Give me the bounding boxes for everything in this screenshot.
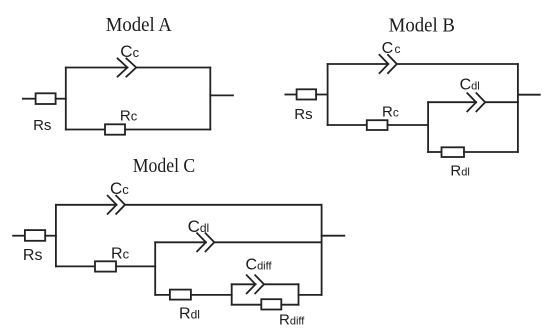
wire: Rs to node (Model A) — [56, 98, 66, 100]
resistor Rdl (Model C) — [170, 290, 191, 300]
wire: top branch left segment (Model A) — [66, 67, 128, 69]
wire: right terminal stub (Model A) — [210, 94, 233, 96]
wire: right vertical (Model C) — [321, 205, 323, 295]
svg-text:Cc: Cc — [110, 179, 129, 198]
wire: Rs to node (Model C) — [45, 235, 56, 237]
wire: outer top branch right segment (Model C) — [125, 204, 322, 206]
resistor Rc (Model C) — [95, 261, 116, 271]
wire: Rc branch right segment (Model C) — [116, 265, 155, 267]
wire: innermost loop to right vertical (Model C) — [299, 294, 322, 296]
wire: right terminal stub (Model B) — [518, 94, 540, 96]
capacitor Cdiff CPE chevron symbol (Model C) — [247, 275, 256, 293]
svg-text:Rdl: Rdl — [179, 305, 200, 322]
svg-text:Rs: Rs — [33, 117, 51, 134]
wire: inner top branch right segment (Model B) — [485, 101, 518, 103]
wire: right vertical (Model B) — [517, 64, 519, 152]
wire: outer top branch left segment (Model C) — [56, 204, 117, 206]
wire: top branch right segment (Model A) — [136, 67, 210, 69]
resistor Rs (Model B) — [297, 89, 317, 99]
svg-text:Rc: Rc — [382, 104, 399, 121]
wire: left terminal stub (Model C) — [13, 235, 25, 237]
wire: Cdiff branch right segment (Model C) — [264, 283, 299, 285]
capacitor Cdl CPE chevron symbol (Model C) — [197, 233, 206, 251]
wire: inner top branch left segment (Model B) — [428, 101, 476, 103]
wire: bottom branch right segment (Model A) — [125, 129, 210, 131]
wire: left vertical of parallel loop (Model A) — [65, 68, 67, 130]
capacitor Cdl CPE chevron symbol (Model B) — [467, 93, 476, 111]
wire: right terminal stub (Model C) — [322, 235, 345, 237]
resistor Rs (Model A) — [36, 93, 56, 104]
wire: Rdl branch right segment (Model C) — [191, 294, 232, 296]
svg-text:Rc: Rc — [111, 245, 130, 262]
wire: Cdiff branch left segment (Model C) — [232, 283, 256, 285]
resistor Rc (Model A) — [105, 124, 125, 134]
svg-text:Model C: Model C — [133, 155, 196, 177]
wire: Rc branch right segment (Model B) — [388, 124, 429, 126]
wire: Rs to node (Model B) — [316, 94, 328, 96]
wire: right vertical of parallel loop (Model A) — [209, 68, 211, 130]
resistor Rdiff (Model C) — [261, 299, 281, 309]
wire: Cdl branch left segment (Model C) — [155, 241, 206, 243]
wire: Rc branch left segment (Model B) — [328, 124, 367, 126]
capacitor Cc CPE chevron symbol (Model A) — [118, 58, 128, 76]
svg-text:Cc: Cc — [382, 40, 401, 57]
wire: outer top branch right segment (Model B) — [397, 63, 518, 65]
svg-text:Rs: Rs — [294, 106, 312, 123]
svg-text:Model B: Model B — [389, 15, 455, 37]
svg-text:Rc: Rc — [120, 108, 138, 125]
wire: outer top branch left segment (Model B) — [328, 63, 389, 65]
wire: left vertical of outer loop (Model B) — [327, 64, 329, 125]
wire: middle loop left vertical (Model C) — [154, 242, 156, 295]
capacitor Cc CPE chevron symbol (Model B) — [380, 55, 389, 73]
wire: innermost bottom branch right segment (Model C) — [281, 304, 298, 306]
capacitor Cc CPE chevron symbol (Model C) — [108, 196, 117, 214]
resistor Rs (Model C) — [25, 230, 45, 241]
wire: inner bottom branch left segment (Model B) — [428, 151, 441, 153]
svg-text:Model A: Model A — [106, 14, 173, 36]
wire: Rdl branch left segment (Model C) — [155, 294, 170, 296]
wire: innermost bottom branch left segment (Model C) — [232, 304, 262, 306]
wire: Rc branch left segment (Model C) — [56, 265, 95, 267]
wire: left vertical of outer loop (Model C) — [55, 205, 57, 267]
wire: inner loop left vertical (Model B) — [427, 102, 429, 152]
wire: Cdl branch right segment (Model C) — [214, 241, 321, 243]
svg-text:Cc: Cc — [120, 42, 139, 61]
resistor Rc (Model B) — [367, 120, 388, 130]
wire: innermost loop left vertical (Model C) — [231, 284, 233, 304]
wire: inner bottom branch right segment (Model B) — [464, 151, 518, 153]
svg-text:Rs: Rs — [23, 247, 43, 264]
resistor Rdl (Model B) — [442, 147, 465, 157]
wire: left terminal stub (Model A) — [23, 98, 36, 100]
wire: bottom branch left segment (Model A) — [66, 129, 105, 131]
wire: innermost loop right vertical (Model C) — [298, 284, 300, 304]
wire: left terminal stub (Model B) — [285, 94, 296, 96]
